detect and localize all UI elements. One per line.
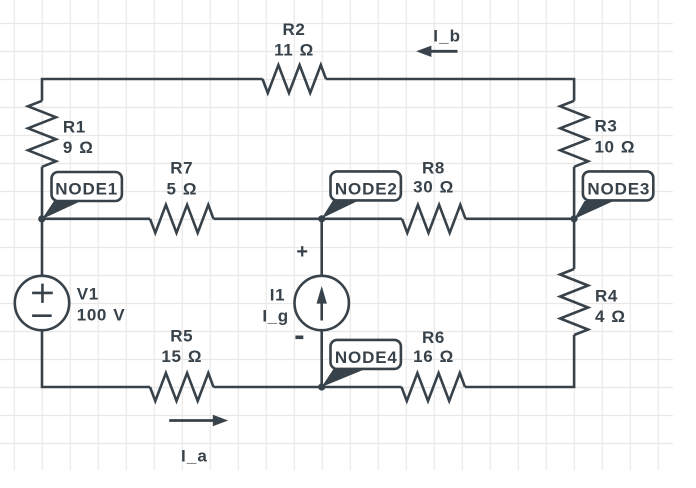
svg-text:16 Ω: 16 Ω	[413, 347, 454, 366]
wire R2 to top-right corner	[326, 79, 574, 101]
node NODE2 junction dot	[318, 215, 325, 222]
wire NODE2 to I1 top	[320, 219, 323, 275]
resistor R3	[560, 101, 588, 167]
svg-text:I_g: I_g	[262, 307, 288, 326]
svg-text:R4: R4	[595, 287, 618, 306]
svg-text:R8: R8	[422, 158, 445, 177]
wire NODE1 to R7	[42, 218, 150, 221]
resistor R5	[150, 373, 214, 401]
svg-text:5 Ω: 5 Ω	[166, 179, 197, 198]
node NODE1 junction dot	[38, 215, 45, 222]
svg-text:4 Ω: 4 Ω	[595, 307, 626, 326]
wire R4 to bottom-right corner to R6	[465, 335, 574, 387]
svg-text:NODE1: NODE1	[55, 180, 118, 199]
svg-text:I_b: I_b	[433, 27, 461, 46]
svg-text:R5: R5	[170, 327, 193, 346]
wire R3 bottom to NODE3	[573, 167, 576, 219]
wire I1 bottom to NODE4	[320, 331, 323, 387]
resistor R8	[402, 205, 466, 233]
svg-text:I1: I1	[270, 285, 285, 304]
wire V1 bottom to bottom-left corner to R5	[42, 331, 150, 387]
svg-text:NODE2: NODE2	[335, 180, 398, 199]
current source I1	[295, 276, 349, 330]
svg-text:R3: R3	[595, 117, 618, 136]
svg-text:30 Ω: 30 Ω	[413, 178, 454, 197]
resistor R6	[402, 373, 466, 401]
node label NODE2 callout	[322, 171, 401, 218]
current arrow I_a	[169, 415, 228, 466]
wire R5 to NODE4	[214, 386, 322, 389]
svg-text:11 Ω: 11 Ω	[274, 41, 314, 60]
V1 minus sign	[32, 314, 52, 317]
node NODE4 junction dot	[318, 383, 325, 390]
svg-text:NODE4: NODE4	[335, 348, 398, 367]
svg-text:I_a: I_a	[181, 446, 208, 465]
wire NODE2 to R8	[322, 218, 402, 221]
svg-text:R7: R7	[170, 159, 193, 178]
svg-text:10 Ω: 10 Ω	[595, 138, 636, 157]
node label NODE3 callout	[574, 171, 653, 219]
wire NODE4 to R6	[322, 386, 402, 389]
wire NODE1 to V1 top	[41, 219, 44, 275]
node label NODE1 callout	[42, 172, 122, 219]
svg-text:R2: R2	[283, 20, 306, 39]
wire NODE3 to R4	[573, 219, 576, 269]
I1 polarity minus	[295, 335, 303, 339]
svg-text:9 Ω: 9 Ω	[63, 138, 94, 157]
current arrow I_b	[416, 27, 461, 57]
svg-text:100 V: 100 V	[77, 306, 125, 325]
resistor R1	[28, 101, 56, 167]
svg-text:R1: R1	[63, 117, 86, 136]
voltage source V1	[15, 276, 69, 330]
svg-text:15 Ω: 15 Ω	[161, 347, 202, 366]
svg-text:R6: R6	[422, 328, 445, 347]
I1 arrow shaft	[320, 302, 323, 321]
node NODE3 junction dot	[571, 215, 578, 222]
resistor R7	[150, 205, 214, 233]
svg-text:+: +	[296, 241, 308, 263]
wire top-left corner to R2	[42, 79, 263, 101]
wire R1 bottom to node NODE1	[41, 167, 44, 219]
I1 arrow head	[317, 286, 327, 304]
svg-text:V1: V1	[77, 285, 99, 304]
resistor R2	[263, 65, 327, 93]
wire R8 to NODE3	[466, 218, 575, 221]
svg-text:NODE3: NODE3	[587, 180, 650, 199]
wire R7 to NODE2	[214, 218, 322, 221]
V1 plus sign	[32, 284, 53, 303]
node label NODE4 callout	[322, 340, 401, 387]
resistor R4	[560, 269, 588, 335]
